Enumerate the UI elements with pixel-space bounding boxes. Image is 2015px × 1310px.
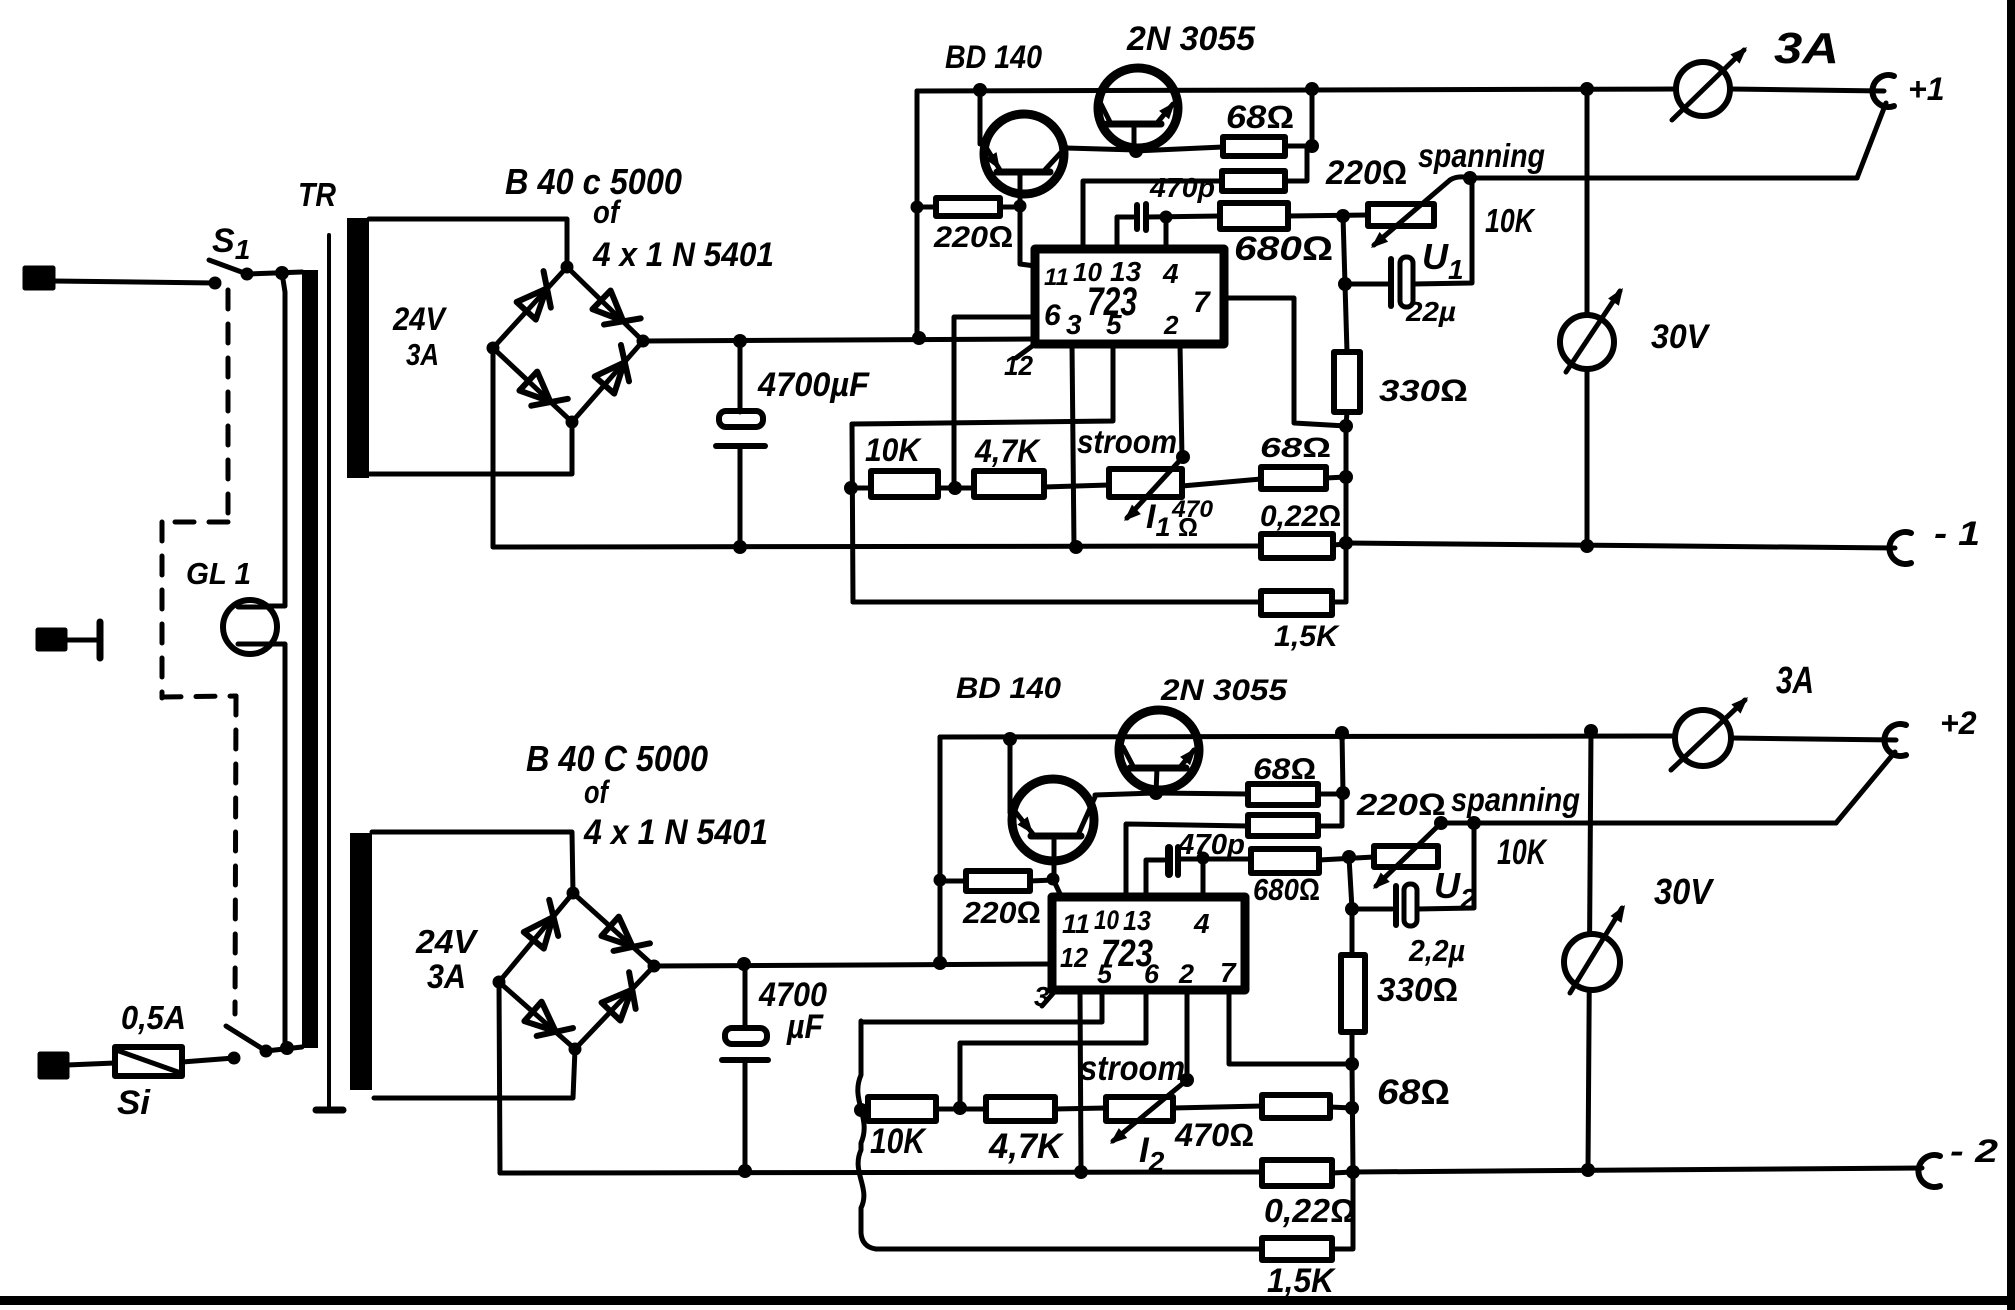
svg-text:22µ: 22µ bbox=[1405, 296, 1456, 327]
svg-text:2: 2 bbox=[1178, 959, 1194, 989]
IC U1 723 regulator bbox=[1035, 249, 1224, 344]
svg-text:10K: 10K bbox=[865, 432, 923, 468]
diode D6 bbox=[599, 916, 650, 966]
svg-text:0,5A: 0,5A bbox=[121, 999, 186, 1036]
resistor 68R b circuit1 bbox=[1222, 171, 1285, 191]
svg-text:68Ω: 68Ω bbox=[1253, 753, 1316, 786]
wire ammeter1 to +1 bbox=[1730, 89, 1884, 91]
svg-text:- 1: - 1 bbox=[1934, 515, 1980, 553]
node I1 wiper bbox=[1176, 450, 1190, 464]
wire 680R node down to 330R bbox=[1343, 216, 1347, 352]
svg-text:+1: +1 bbox=[1908, 71, 1944, 107]
wire plug L to switch S1 bbox=[53, 281, 215, 283]
left riser circuit2 bbox=[938, 737, 943, 963]
svg-text:470p: 470p bbox=[1177, 829, 1245, 861]
svg-text:6: 6 bbox=[1044, 299, 1061, 332]
svg-text:BD 140: BD 140 bbox=[956, 672, 1061, 705]
svg-text:- 2: - 2 bbox=[1950, 1133, 1998, 1169]
wire bridge1 left vertex down to minus rail bbox=[491, 348, 496, 547]
capacitor C1 4700uF bbox=[738, 341, 743, 412]
junction BD140 emitter riser bbox=[973, 83, 987, 97]
node Q4 base / Q3 collector bbox=[1149, 786, 1163, 800]
terminal +2 bbox=[1884, 724, 1906, 756]
node bridge1 top bbox=[561, 261, 574, 274]
wire sense diagonal to +1 bbox=[1857, 103, 1886, 178]
resistor divider row circuit2: 10K bbox=[861, 1108, 868, 1113]
svg-text:11: 11 bbox=[1062, 909, 1090, 939]
wire sense diagonal to +2 bbox=[1836, 752, 1895, 823]
junction BD140-2 emitter riser bbox=[1003, 732, 1017, 746]
wire Q3 collector to Q4 base node bbox=[1095, 793, 1156, 795]
mains plug pin L bbox=[25, 268, 53, 288]
wire 680R node down to 330R c2 bbox=[1349, 857, 1352, 955]
rheostat I2 470R body bbox=[1106, 1097, 1173, 1121]
svg-text:+2: +2 bbox=[1940, 705, 1977, 741]
wire pin2 to I1 wiper bbox=[1180, 344, 1182, 458]
svg-text:24V: 24V bbox=[415, 923, 479, 960]
transistor Q2 2N3055 bbox=[1098, 68, 1178, 148]
svg-text:13: 13 bbox=[1123, 905, 1151, 936]
plus rail circuit2 bbox=[654, 964, 1052, 966]
svg-text:0,22Ω: 0,22Ω bbox=[1264, 1192, 1356, 1229]
svg-text:220Ω: 220Ω bbox=[933, 221, 1013, 254]
svg-text:68Ω: 68Ω bbox=[1260, 432, 1331, 463]
wire pin5 long down to minus rail c2 bbox=[1080, 990, 1081, 1172]
wire pin5 to left loop bbox=[852, 344, 1113, 424]
minus rail circuit2 right part bbox=[1353, 1168, 1922, 1172]
resistor 68R row circuit1 bbox=[1261, 467, 1326, 489]
capacitor U2 2,2u bbox=[1393, 886, 1399, 925]
node bridge1 bottom bbox=[566, 416, 579, 429]
wire pin2 to I2 wiper bbox=[1185, 990, 1190, 1080]
wire earth plug bbox=[65, 638, 100, 643]
junction plus rail / left riser c2 bbox=[933, 956, 947, 970]
wire 330R chain bbox=[1344, 426, 1349, 602]
svg-text:7: 7 bbox=[1193, 286, 1211, 319]
secondary 1 box bottom wire bbox=[369, 422, 572, 474]
node 2,2u left bbox=[1345, 902, 1359, 916]
junction 10K left bbox=[844, 481, 858, 495]
junction 10K/4,7K bbox=[948, 481, 962, 495]
svg-text:spanning: spanning bbox=[1418, 137, 1545, 174]
svg-text:470Ω: 470Ω bbox=[1174, 1117, 1254, 1153]
resistor 330R circuit1 bbox=[1334, 352, 1360, 412]
resistor 68R a circuit2 bbox=[1248, 784, 1318, 805]
capacitor U1 22u bbox=[1388, 259, 1394, 306]
node 470p right / pin4 bbox=[1160, 211, 1173, 224]
svg-text:220Ω: 220Ω bbox=[1325, 154, 1407, 192]
svg-text:4 x 1 N 5401: 4 x 1 N 5401 bbox=[592, 236, 774, 274]
mains plug pin earth bbox=[38, 630, 65, 649]
wire bridge2 left vertex down to minus rail bbox=[499, 982, 500, 1173]
top rail circuit1 bbox=[917, 89, 1677, 91]
diode D8 bbox=[601, 972, 651, 1022]
wire plus rail circuit1 bbox=[643, 339, 1035, 341]
svg-text:3A: 3A bbox=[427, 958, 466, 996]
svg-text:680Ω: 680Ω bbox=[1234, 230, 1333, 268]
svg-text:220Ω: 220Ω bbox=[962, 895, 1041, 930]
minus rail circuit1 right part bbox=[1346, 543, 1895, 548]
switch S1b blade bbox=[226, 1026, 266, 1051]
junction cap2 bottom bbox=[738, 1164, 752, 1178]
svg-text:Si: Si bbox=[117, 1084, 152, 1122]
svg-text:4,7K: 4,7K bbox=[974, 433, 1042, 469]
transformer secondary winding 2 bar bbox=[350, 833, 372, 1090]
diode D4 bbox=[594, 345, 644, 396]
resistor divider row circuit1: 10K bbox=[851, 486, 871, 491]
IC U2 723 regulator bbox=[1052, 897, 1245, 990]
svg-text:4700µF: 4700µF bbox=[757, 366, 870, 404]
junction plus rail / left riser bbox=[912, 331, 926, 345]
node 68R row right bbox=[1339, 470, 1353, 484]
svg-text:2N 3055: 2N 3055 bbox=[1126, 20, 1256, 58]
node 22u left bbox=[1338, 277, 1352, 291]
svg-text:11: 11 bbox=[1044, 264, 1069, 291]
svg-text:3A: 3A bbox=[406, 337, 439, 372]
ammeter 3A circuit2 bbox=[1675, 710, 1731, 766]
bridge rectifier B40C5000 circuit2 diamond bbox=[499, 893, 654, 1049]
junction meter branch top bbox=[1580, 82, 1594, 96]
resistor 680R circuit1 bbox=[1220, 203, 1288, 229]
junction pin3 / minus rail bbox=[1069, 540, 1083, 554]
transformer TR primary winding bar bbox=[302, 270, 318, 1048]
junction cap2 top bbox=[737, 957, 751, 971]
resistor 68R a circuit1 bbox=[1223, 137, 1285, 156]
svg-text:6: 6 bbox=[1144, 959, 1160, 989]
node bridge2 top bbox=[567, 887, 580, 900]
junction pin5 / minus rail c2 bbox=[1074, 1165, 1088, 1179]
mains plug pin N bbox=[40, 1054, 67, 1077]
transistor Q1 BD140 bbox=[984, 114, 1064, 194]
terminal +1 bbox=[1872, 75, 1894, 107]
wire pin6 to divider c2 bbox=[960, 990, 1146, 1108]
wire Q4 emitter to 68R pair c2 bbox=[1156, 793, 1248, 794]
capacitor 470p circuit1 bbox=[1117, 217, 1133, 248]
resistor 220R circuit1 bbox=[917, 205, 936, 210]
svg-text:3A: 3A bbox=[1776, 660, 1814, 702]
wire pin7 to 330R bottom c2 bbox=[1229, 990, 1352, 1064]
wire pin6 to divider bbox=[954, 317, 1035, 488]
resistor 68R row circuit2 bbox=[1262, 1095, 1330, 1118]
junction 10K left c2 bbox=[854, 1103, 868, 1117]
rheostat I1 470R body bbox=[1109, 469, 1182, 497]
wire plug N to fuse bbox=[67, 1063, 115, 1065]
lamp GL1 bbox=[223, 600, 277, 654]
potentiometer 220R spanning circuit2 bbox=[1374, 846, 1438, 867]
ammeter 3A circuit1 bbox=[1676, 62, 1730, 116]
node pot2 wiper bbox=[1434, 816, 1448, 830]
left loop vertical circuit1 bbox=[852, 424, 853, 602]
svg-text:stroom: stroom bbox=[1080, 1049, 1185, 1088]
junction cap1 top bbox=[733, 334, 747, 348]
voltmeter 30V circuit2 bbox=[1564, 934, 1620, 990]
wire S1 to transformer primary top bbox=[247, 272, 302, 274]
diode D7 bbox=[522, 1001, 573, 1051]
svg-text:470p: 470p bbox=[1149, 172, 1215, 203]
minus rail circuit1 bbox=[493, 546, 1261, 547]
wire pin5b to left loop c2 bbox=[861, 990, 1102, 1022]
svg-text:TR: TR bbox=[298, 176, 336, 213]
wire 68R node to top rail c2 bbox=[1342, 733, 1343, 793]
svg-text:4,7K: 4,7K bbox=[988, 1127, 1065, 1166]
svg-text:68Ω: 68Ω bbox=[1226, 99, 1294, 135]
diode D5 bbox=[523, 900, 572, 951]
wire voltmeter branch c2 bbox=[1588, 731, 1591, 1170]
node lamp branch bottom bbox=[280, 1041, 294, 1055]
diode D3 bbox=[517, 371, 567, 421]
switch S1 blade bbox=[209, 260, 247, 274]
node sense/10K bbox=[1463, 171, 1477, 185]
svg-text:68Ω: 68Ω bbox=[1377, 1073, 1450, 1112]
svg-text:of: of bbox=[593, 194, 622, 230]
svg-text:3: 3 bbox=[1066, 309, 1082, 340]
resistor 0,22R circuit2 bbox=[1262, 1160, 1332, 1186]
svg-text:12: 12 bbox=[1004, 350, 1033, 381]
bottom border line bbox=[0, 1296, 2015, 1305]
switch S1b contact node bbox=[228, 1052, 241, 1065]
junction cap1 bottom bbox=[733, 540, 747, 554]
svg-text:0,22Ω: 0,22Ω bbox=[1260, 500, 1341, 533]
svg-text:5: 5 bbox=[1106, 309, 1122, 340]
right border line bbox=[2007, 0, 2015, 1310]
voltmeter 30V circuit1 bbox=[1560, 315, 1614, 369]
svg-text:5: 5 bbox=[1097, 959, 1113, 989]
wire emitter riser bbox=[978, 90, 983, 144]
wire pin3 down to minus rail bbox=[1072, 344, 1074, 547]
lamp branch wire upper bbox=[266, 273, 285, 606]
secondary 2 box top wire bbox=[372, 832, 573, 893]
svg-text:10: 10 bbox=[1094, 905, 1119, 935]
junction meter branch bottom bbox=[1580, 539, 1594, 553]
potentiometer 220R spanning circuit1 bbox=[1368, 204, 1434, 226]
svg-text:BD 140: BD 140 bbox=[945, 39, 1042, 75]
node 330R bottom c2 bbox=[1345, 1057, 1359, 1071]
node 68R row right c2 bbox=[1345, 1101, 1359, 1115]
wire 330R chain c2 bbox=[1352, 1064, 1353, 1172]
diode D2 bbox=[590, 290, 640, 340]
svg-text:µF: µF bbox=[786, 1008, 824, 1046]
wire ammeter2 to +2 bbox=[1731, 738, 1896, 740]
svg-text:Ω: Ω bbox=[1178, 512, 1198, 542]
wire 68Rb left to IC2 pin10 bbox=[1126, 824, 1248, 897]
node 68R pair right c2 bbox=[1336, 786, 1350, 800]
wire 10K drop bbox=[1413, 178, 1472, 284]
svg-text:30V: 30V bbox=[1654, 871, 1715, 912]
svg-text:330Ω: 330Ω bbox=[1377, 971, 1458, 1008]
node bridge2 left bbox=[493, 976, 506, 989]
svg-text:2N 3055: 2N 3055 bbox=[1160, 674, 1289, 707]
svg-text:7: 7 bbox=[1220, 957, 1237, 988]
node bridge1 left bbox=[487, 342, 500, 355]
svg-text:1,5K: 1,5K bbox=[1274, 620, 1340, 653]
node 470p right / pin4 c2 bbox=[1197, 852, 1210, 865]
svg-text:24V: 24V bbox=[392, 301, 447, 337]
svg-text:GL 1: GL 1 bbox=[186, 556, 251, 591]
svg-text:12: 12 bbox=[1060, 942, 1088, 973]
earth pin end bar bbox=[97, 622, 104, 658]
transistor Q3 BD140 bbox=[1012, 779, 1094, 861]
node lamp branch top bbox=[275, 266, 289, 280]
resistor 4,7K circuit1 bbox=[974, 471, 1044, 497]
node 0,22R right / minus rail bbox=[1339, 536, 1353, 550]
wire BD140 collector to 2N3055 base node bbox=[1066, 148, 1136, 150]
lamp branch wire lower bbox=[266, 644, 287, 1048]
switch S1 contact node bbox=[209, 277, 222, 290]
node 680R right c2 bbox=[1342, 850, 1356, 864]
secondary 2 box bottom wire bbox=[374, 1049, 575, 1098]
svg-text:of: of bbox=[584, 774, 611, 810]
junction meter branch top c2 bbox=[1584, 724, 1598, 738]
node 68R pair right bbox=[1305, 139, 1319, 153]
svg-text:3A: 3A bbox=[1774, 24, 1839, 73]
resistor 330R circuit2 bbox=[1341, 955, 1365, 1032]
svg-text:10K: 10K bbox=[870, 1122, 927, 1161]
svg-text:10K: 10K bbox=[1497, 833, 1548, 872]
resistor 0,22R circuit1 bbox=[1261, 534, 1333, 558]
node sense/10K c2 bbox=[1467, 816, 1481, 830]
minus rail circuit2 bbox=[500, 1172, 1262, 1173]
diode D1 bbox=[516, 271, 566, 322]
svg-text:3: 3 bbox=[1034, 981, 1050, 1012]
rheostat I2 wiper arm bbox=[1113, 1080, 1187, 1141]
fuse Si 0,5A bbox=[115, 1047, 182, 1076]
node bridge1 right bbox=[637, 335, 650, 348]
svg-text:30V: 30V bbox=[1651, 318, 1711, 356]
svg-text:1,5K: 1,5K bbox=[1267, 1262, 1336, 1300]
transformer core line bbox=[327, 235, 331, 1110]
wire base node to IC left edge bbox=[1020, 206, 1035, 266]
top rail circuit2 bbox=[940, 736, 1677, 737]
capacitor 470p circuit2 bbox=[1146, 860, 1164, 897]
wire 10K drop c2 bbox=[1418, 823, 1474, 909]
sense wire circuit1 bbox=[1470, 176, 1857, 181]
resistor 1,5K circuit2 bbox=[876, 1247, 1262, 1252]
capacitor C2 4700uF bbox=[743, 964, 748, 1028]
wire fuse to switch S1b bbox=[182, 1058, 234, 1062]
node Q2 base / Q1 collector bbox=[1129, 144, 1143, 158]
svg-text:2: 2 bbox=[1163, 310, 1179, 340]
node bridge2 right bbox=[648, 960, 661, 973]
svg-text:B 40 C 5000: B 40 C 5000 bbox=[526, 738, 708, 779]
svg-text:stroom: stroom bbox=[1077, 423, 1177, 460]
resistor 680R circuit2 bbox=[1251, 849, 1319, 873]
terminal -1 bbox=[1889, 532, 1911, 564]
svg-text:4: 4 bbox=[1193, 908, 1210, 939]
secondary 1 box top wire bbox=[369, 219, 567, 267]
resistor 68R b circuit2 bbox=[1248, 815, 1318, 836]
svg-text:220Ω: 220Ω bbox=[1356, 787, 1446, 822]
svg-text:4 x 1 N 5401: 4 x 1 N 5401 bbox=[583, 813, 768, 852]
dashed enclosure of GL1 bbox=[162, 290, 236, 1014]
rheostat I1 wiper arm bbox=[1127, 457, 1183, 518]
svg-text:680Ω: 680Ω bbox=[1253, 872, 1320, 907]
node 0,22R right / minus rail c2 bbox=[1346, 1165, 1360, 1179]
wire voltmeter branch bbox=[1585, 89, 1590, 546]
wire base node into IC2 corner bbox=[1053, 879, 1062, 898]
svg-text:spanning: spanning bbox=[1451, 781, 1580, 818]
resistor 4,7K circuit2 bbox=[986, 1097, 1055, 1121]
resistor 1,5K circuit1 bbox=[853, 600, 1261, 605]
node I2 wiper bbox=[1180, 1073, 1194, 1087]
junction 10K/4,7K c2 bbox=[953, 1101, 967, 1115]
junction meter branch bottom c2 bbox=[1581, 1163, 1595, 1177]
transistor Q4 2N3055 bbox=[1119, 710, 1199, 790]
wire 68R node to top rail bbox=[1310, 89, 1315, 146]
pin12 tick bbox=[1016, 344, 1035, 358]
svg-text:10K: 10K bbox=[1485, 202, 1536, 239]
wire Q2 emitter to 68R pair bbox=[1136, 147, 1223, 151]
bridge rectifier B40c5000 circuit1 diamond bbox=[493, 267, 643, 422]
wire pin7 to 330R bottom bbox=[1224, 298, 1346, 426]
node 680R right bbox=[1336, 209, 1350, 223]
sense wire circuit2 bbox=[1441, 821, 1836, 826]
resistor 220R circuit2 bbox=[940, 879, 966, 884]
wire S1b to transformer primary bottom bbox=[266, 1047, 302, 1051]
left loop vertical circuit2 with hop bbox=[858, 1021, 876, 1249]
node bridge2 bottom bbox=[569, 1043, 582, 1056]
wire emitter riser c2 bbox=[1008, 739, 1013, 813]
left riser circuit1 bbox=[915, 91, 920, 338]
transformer secondary winding 1 bar bbox=[347, 218, 369, 478]
pin3 tick c2 bbox=[1042, 990, 1056, 1006]
node 330R bottom bbox=[1339, 419, 1353, 433]
svg-text:2,2µ: 2,2µ bbox=[1408, 933, 1465, 968]
svg-text:330Ω: 330Ω bbox=[1379, 373, 1468, 408]
terminal -2 bbox=[1918, 1155, 1940, 1187]
svg-text:4: 4 bbox=[1162, 258, 1179, 289]
wire 68Rb left to IC pin10 bbox=[1083, 181, 1222, 248]
